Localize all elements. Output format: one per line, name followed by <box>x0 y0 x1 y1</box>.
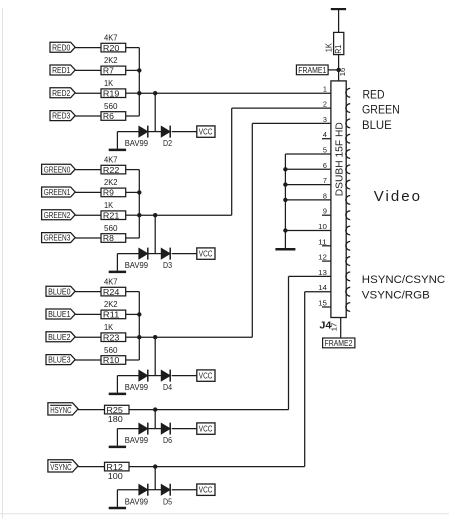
wire HSYNC to resistor <box>78 409 104 411</box>
svg-text:BLUE0: BLUE0 <box>48 287 71 296</box>
wire resistor to bus <box>126 48 140 71</box>
svg-text:D4: D4 <box>163 383 172 392</box>
svg-text:R24: R24 <box>103 287 120 297</box>
net label GREEN3 <box>42 233 76 243</box>
svg-text:560: 560 <box>104 224 118 233</box>
diode D3 <box>161 248 170 260</box>
power VCC (D6) <box>197 423 215 434</box>
wire resistor to bus <box>126 313 140 315</box>
svg-text:BLUE: BLUE <box>362 120 392 132</box>
resistor R25 <box>105 405 130 415</box>
wire signal to clamp <box>139 337 155 375</box>
wire VSYNC to resistor <box>78 466 104 468</box>
value label 2K2 <box>104 300 118 309</box>
connector J4 body (DSUBH 15F HD) <box>331 81 350 318</box>
wire R1 to pin 16 <box>338 55 340 81</box>
wire pin 17 to FRAME2 <box>340 318 342 339</box>
svg-text:GREEN0: GREEN0 <box>44 165 71 174</box>
pin number 15 <box>318 299 327 308</box>
wire diode to VCC <box>172 489 197 491</box>
svg-text:R19: R19 <box>103 88 120 98</box>
net label GREEN2 <box>42 210 76 220</box>
wire resistor to bus <box>126 214 140 216</box>
pin number 2 <box>323 100 327 109</box>
net label RED1 <box>50 65 75 75</box>
diode D4 <box>161 370 170 382</box>
value label 2K2 <box>104 56 118 65</box>
value label 4K7 <box>104 33 118 42</box>
net label FRAME1 <box>296 65 328 75</box>
junction <box>137 312 141 316</box>
svg-text:BLUE2: BLUE2 <box>48 333 71 342</box>
power VCC (D5) <box>197 484 215 495</box>
svg-text:VCC: VCC <box>199 127 213 137</box>
wire BLUE3 to resistor <box>75 359 101 361</box>
svg-text:VSYNC: VSYNC <box>50 462 71 472</box>
svg-text:R1: R1 <box>334 44 343 53</box>
label D4 <box>163 383 172 392</box>
label RED (pin 1) <box>363 89 385 101</box>
svg-text:560: 560 <box>104 102 118 111</box>
svg-text:BAV99: BAV99 <box>125 261 149 270</box>
svg-text:RED3: RED3 <box>52 112 71 121</box>
diode BAV99 (GREEN) <box>139 248 148 260</box>
svg-text:R22: R22 <box>103 165 120 175</box>
svg-text:VSYNC/RGB: VSYNC/RGB <box>362 290 430 302</box>
svg-text:J4: J4 <box>319 320 331 331</box>
svg-text:1: 1 <box>323 84 327 93</box>
svg-text:1K: 1K <box>104 323 114 332</box>
junction <box>153 213 157 217</box>
net label RED3 <box>50 111 75 121</box>
net label HSYNC <box>48 403 78 415</box>
pin number 8 <box>323 191 327 200</box>
svg-text:100: 100 <box>108 472 124 481</box>
svg-text:7: 7 <box>323 176 327 185</box>
wire bus mid <box>138 70 140 93</box>
svg-text:8: 8 <box>323 191 327 200</box>
diode D6 <box>161 423 170 435</box>
label BAV99 <box>125 139 149 148</box>
wire resistor to bus <box>126 336 140 338</box>
wire bus mid <box>138 314 140 337</box>
svg-text:560: 560 <box>104 346 118 355</box>
resistor R22 <box>101 165 126 175</box>
wire resistor to bus <box>126 69 140 71</box>
wire signal to clamp <box>139 93 155 131</box>
wire ground to diode <box>117 253 138 255</box>
wire resistor to bus <box>126 337 140 360</box>
svg-text:BAV99: BAV99 <box>125 139 149 148</box>
wire GREEN0 to resistor <box>75 169 101 171</box>
wire between diodes <box>148 131 161 133</box>
wire diode to VCC <box>172 253 197 255</box>
svg-text:HSYNC/CSYNC: HSYNC/CSYNC <box>362 274 445 286</box>
wire VSYNC net to pin 14 <box>155 292 331 467</box>
pin number 6 <box>323 161 327 170</box>
svg-text:2K2: 2K2 <box>104 56 118 65</box>
svg-text:11: 11 <box>318 237 327 246</box>
resistor R7 <box>101 66 126 76</box>
label D3 <box>163 261 172 270</box>
ground <box>109 254 126 272</box>
wire bus mid <box>138 192 140 215</box>
svg-text:14: 14 <box>318 283 327 292</box>
pin number 1 <box>323 84 327 93</box>
label BAV99 <box>125 383 149 392</box>
junction <box>137 335 141 339</box>
svg-text:RED0: RED0 <box>52 43 71 52</box>
wire GREEN net to pin 2 <box>155 108 331 215</box>
junction <box>137 68 141 72</box>
net label GREEN0 <box>42 164 76 174</box>
pin number 9 <box>323 207 327 216</box>
value label 1K <box>104 79 114 88</box>
svg-text:15: 15 <box>318 299 327 308</box>
net label RED2 <box>50 88 75 98</box>
resistor R9 <box>101 188 126 198</box>
svg-text:4K7: 4K7 <box>104 33 118 42</box>
svg-text:R8: R8 <box>103 233 114 243</box>
svg-text:9: 9 <box>323 207 327 216</box>
svg-text:VCC: VCC <box>199 249 213 259</box>
svg-text:R6: R6 <box>103 111 114 121</box>
svg-text:GREEN1: GREEN1 <box>44 188 71 197</box>
wire GREEN3 to resistor <box>75 237 101 239</box>
power VCC (D2) <box>197 126 215 137</box>
pin number 4 <box>323 130 327 139</box>
wire resistor to bus <box>126 170 140 193</box>
pin number 5 <box>323 146 327 155</box>
value label 560 <box>104 224 118 233</box>
svg-text:12: 12 <box>318 253 327 262</box>
label VSYNC/RGB (pin 14) <box>362 290 430 302</box>
junction <box>283 182 287 186</box>
ground <box>109 490 126 508</box>
diode D2 <box>161 126 170 138</box>
svg-text:BAV99: BAV99 <box>125 383 149 392</box>
wire ground bus pins 5-10 <box>285 154 331 248</box>
svg-text:RED2: RED2 <box>52 89 71 98</box>
pin number 12 <box>318 253 327 262</box>
svg-text:DSUBH 15F HD: DSUBH 15F HD <box>334 122 345 196</box>
svg-text:4: 4 <box>323 130 327 139</box>
svg-text:R20: R20 <box>103 43 120 53</box>
value label 100 <box>108 472 124 481</box>
wire resistor to bus <box>126 215 140 238</box>
junction <box>137 190 141 194</box>
part name J4 <box>319 320 331 331</box>
wire between diodes <box>148 375 161 377</box>
resistor R23 <box>101 332 126 342</box>
value label 4K7 <box>104 155 118 164</box>
svg-text:VCC: VCC <box>199 424 213 434</box>
svg-text:GREEN: GREEN <box>362 105 400 117</box>
svg-text:10: 10 <box>318 222 327 231</box>
wire RED3 to resistor <box>75 115 101 117</box>
wire RED1 to resistor <box>75 69 101 71</box>
net label BLUE1 <box>46 309 75 319</box>
svg-text:FRAME2: FRAME2 <box>325 339 353 348</box>
diode BAV99 (RED) <box>139 126 148 138</box>
wire resistor to junction <box>129 409 155 411</box>
wire diode to VCC <box>172 375 197 377</box>
label D5 <box>163 497 172 506</box>
pin 12 stub <box>322 260 331 262</box>
junction <box>137 91 141 95</box>
wire junction to clamp <box>154 410 156 429</box>
svg-text:R11: R11 <box>103 310 120 320</box>
pin number 17 <box>332 323 339 332</box>
wire BLUE0 to resistor <box>75 291 101 293</box>
ground (pin bus) <box>275 248 295 251</box>
svg-text:RED1: RED1 <box>52 66 71 75</box>
wire resistor to junction <box>129 466 155 468</box>
svg-text:180: 180 <box>108 415 124 424</box>
pin number 16 <box>340 68 347 77</box>
svg-text:5: 5 <box>323 146 327 155</box>
junction <box>137 213 141 217</box>
wire resistor to bus <box>126 92 140 94</box>
resistor R8 <box>101 233 126 243</box>
label BLUE (pin 3) <box>362 120 392 132</box>
svg-text:VCC: VCC <box>199 371 213 381</box>
svg-text:1K: 1K <box>104 79 114 88</box>
resistor R12 <box>105 462 130 472</box>
wire resistor to bus <box>126 93 140 116</box>
junction (pin 16 node) <box>336 68 340 72</box>
power VCC (D3) <box>197 248 215 259</box>
svg-text:D5: D5 <box>163 497 172 506</box>
svg-text:17: 17 <box>332 323 339 332</box>
wire between diodes <box>148 428 161 430</box>
svg-text:GREEN3: GREEN3 <box>44 234 71 243</box>
svg-text:3: 3 <box>323 115 327 124</box>
label BAV99 <box>125 436 149 445</box>
svg-text:R12: R12 <box>106 462 123 472</box>
wire diode to VCC <box>172 131 197 133</box>
junction <box>153 464 157 468</box>
svg-text:16: 16 <box>340 68 347 77</box>
wire ground to diode <box>117 428 138 430</box>
value label 2K2 <box>104 178 118 187</box>
pin number 7 <box>323 176 327 185</box>
pin number 11 <box>318 237 327 246</box>
svg-text:Video: Video <box>374 188 420 205</box>
junction <box>283 228 287 232</box>
ground <box>109 376 126 394</box>
pin 9 stub <box>322 214 331 216</box>
svg-text:13: 13 <box>318 268 327 277</box>
junction <box>283 167 287 171</box>
wire junction to clamp <box>154 467 156 490</box>
wire resistor to bus <box>126 292 140 315</box>
resistor R1 <box>334 32 344 54</box>
wire GREEN2 to resistor <box>75 214 101 216</box>
junction <box>153 407 157 411</box>
wire FRAME1 to junction <box>328 69 339 71</box>
pin number 3 <box>323 115 327 124</box>
svg-text:1K: 1K <box>104 201 114 210</box>
resistor R10 <box>101 355 126 365</box>
pin 15 stub <box>322 306 331 308</box>
diode BAV99 (HSYNC) <box>139 423 148 435</box>
wire resistor to bus <box>126 191 140 193</box>
svg-text:D6: D6 <box>163 436 172 445</box>
net label FRAME2 <box>323 338 355 348</box>
wire between diodes <box>148 489 161 491</box>
svg-text:D3: D3 <box>163 261 172 270</box>
resistor R21 <box>101 210 126 220</box>
value label 1K <box>104 201 114 210</box>
svg-text:4K7: 4K7 <box>104 277 118 286</box>
ground <box>109 132 126 150</box>
svg-text:HSYNC: HSYNC <box>50 405 71 415</box>
diode D5 <box>161 484 170 496</box>
wire signal to clamp <box>139 215 155 253</box>
value label 560 <box>104 346 118 355</box>
wire BLUE net to pin 3 <box>155 123 331 337</box>
label D2 <box>163 139 172 148</box>
resistor R20 <box>101 43 126 53</box>
wire ground to diode <box>117 489 138 491</box>
svg-text:BLUE1: BLUE1 <box>48 310 71 319</box>
svg-text:D2: D2 <box>163 139 172 148</box>
label BAV99 <box>125 497 149 506</box>
svg-text:6: 6 <box>323 161 327 170</box>
wire between diodes <box>148 253 161 255</box>
svg-text:1K: 1K <box>325 42 334 52</box>
svg-text:R7: R7 <box>103 66 114 76</box>
net label BLUE2 <box>46 332 75 342</box>
svg-text:2K2: 2K2 <box>104 300 118 309</box>
net label VSYNC <box>48 460 78 472</box>
pin number 13 <box>318 268 327 277</box>
svg-text:R9: R9 <box>103 188 114 198</box>
wire RED0 to resistor <box>75 47 101 49</box>
wire BLUE2 to resistor <box>75 336 101 338</box>
value label 180 <box>108 415 124 424</box>
net label BLUE3 <box>46 355 75 365</box>
wire RED2 to resistor <box>75 92 101 94</box>
svg-text:BAV99: BAV99 <box>125 436 149 445</box>
wire BLUE1 to resistor <box>75 313 101 315</box>
terminal bar (shield) <box>331 8 346 10</box>
diode BAV99 (VSYNC) <box>139 484 148 496</box>
label Video <box>374 188 420 205</box>
svg-text:2: 2 <box>323 100 327 109</box>
wire RED net to pin 1 <box>155 92 331 94</box>
resistor R11 <box>101 310 126 320</box>
pin 4 stub <box>322 138 331 140</box>
wire ground to diode <box>117 131 138 133</box>
label D6 <box>163 436 172 445</box>
wire diode to VCC <box>172 428 197 430</box>
svg-text:FRAME1: FRAME1 <box>298 66 326 75</box>
wire bar to R1 <box>338 9 340 32</box>
junction <box>153 91 157 95</box>
ground <box>109 429 126 447</box>
net label GREEN1 <box>42 187 76 197</box>
junction <box>283 198 287 202</box>
svg-text:VCC: VCC <box>199 485 213 495</box>
svg-text:RED: RED <box>363 89 385 101</box>
label GREEN (pin 2) <box>362 105 400 117</box>
net label BLUE0 <box>46 286 75 296</box>
pin number 10 <box>318 222 327 231</box>
svg-text:GREEN2: GREEN2 <box>44 211 71 220</box>
svg-text:BAV99: BAV99 <box>125 497 149 506</box>
svg-text:BLUE3: BLUE3 <box>48 356 71 365</box>
svg-text:R23: R23 <box>103 332 120 342</box>
svg-text:R21: R21 <box>103 210 120 220</box>
net label RED0 <box>50 42 75 52</box>
wire HSYNC net to pin 13 <box>155 276 331 409</box>
junction <box>153 335 157 339</box>
resistor R6 <box>101 111 126 121</box>
svg-text:R25: R25 <box>106 405 123 415</box>
label HSYNC/CSYNC (pin 13) <box>362 274 445 286</box>
value label 1K <box>104 323 114 332</box>
svg-text:2K2: 2K2 <box>104 178 118 187</box>
resistor R19 <box>101 88 126 98</box>
power VCC (D4) <box>197 370 215 381</box>
value label 560 <box>104 102 118 111</box>
diode BAV99 (BLUE) <box>139 370 148 382</box>
value label 1K (R1) <box>325 42 334 52</box>
pin 11 stub <box>322 245 331 247</box>
pin number 14 <box>318 283 327 292</box>
label BAV99 <box>125 261 149 270</box>
svg-text:4K7: 4K7 <box>104 155 118 164</box>
resistor R24 <box>101 287 126 297</box>
value label 4K7 <box>104 277 118 286</box>
svg-text:R10: R10 <box>103 355 120 365</box>
wire GREEN1 to resistor <box>75 191 101 193</box>
wire ground to diode <box>117 375 138 377</box>
